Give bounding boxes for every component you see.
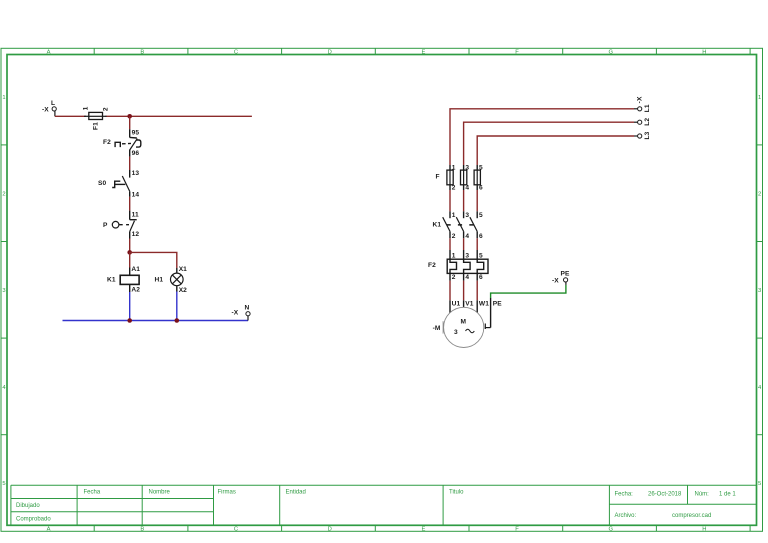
svg-text:Nombre: Nombre xyxy=(149,489,171,495)
svg-text:M: M xyxy=(461,319,467,326)
svg-text:Fecha: Fecha xyxy=(84,489,101,495)
svg-text:Firmas: Firmas xyxy=(218,489,236,495)
svg-text:L: L xyxy=(51,100,55,107)
wire branch to H1 xyxy=(130,252,177,268)
terminal -X L (control supply) xyxy=(42,100,56,116)
wire F to K1 pole1 xyxy=(449,190,451,211)
svg-text:L2: L2 xyxy=(644,118,651,126)
terminal -X L1 xyxy=(634,96,651,112)
wire phase L1 xyxy=(450,109,634,165)
svg-text:F1: F1 xyxy=(93,122,100,130)
svg-text:1: 1 xyxy=(452,164,456,171)
svg-text:S0: S0 xyxy=(98,180,106,187)
junction node coil branch xyxy=(127,250,132,255)
lamp H1 (X1-X2) xyxy=(155,266,188,294)
svg-text:W1: W1 xyxy=(479,300,489,307)
svg-text:PE: PE xyxy=(561,271,570,278)
svg-text:4: 4 xyxy=(465,274,469,281)
svg-text:5: 5 xyxy=(479,164,483,171)
contactor K1 main contacts xyxy=(433,211,484,240)
svg-text:4: 4 xyxy=(2,385,6,391)
svg-text:K1: K1 xyxy=(433,221,442,228)
svg-text:6: 6 xyxy=(479,185,483,192)
svg-text:1 de 1: 1 de 1 xyxy=(719,491,736,497)
wire S0 to P xyxy=(129,197,131,211)
svg-text:2: 2 xyxy=(452,274,456,281)
svg-text:-M: -M xyxy=(433,325,441,332)
wire P to node xyxy=(129,239,131,253)
wire F2 to S0 xyxy=(129,157,131,170)
svg-text:F: F xyxy=(515,527,519,533)
junction node H1/N xyxy=(175,318,180,323)
svg-text:Fecha:: Fecha: xyxy=(615,491,634,497)
svg-text:C: C xyxy=(234,50,238,56)
motor -M (3~) xyxy=(433,298,503,348)
wire F2 to motor U1 xyxy=(449,281,451,301)
svg-text:P: P xyxy=(103,222,108,229)
svg-text:G: G xyxy=(608,527,613,533)
svg-text:4: 4 xyxy=(758,385,762,391)
wire F2 to motor V1 xyxy=(463,281,465,301)
terminal -X PE xyxy=(552,271,570,285)
svg-text:L3: L3 xyxy=(644,131,651,139)
svg-text:A: A xyxy=(47,527,51,533)
wire phase L3 xyxy=(477,136,634,165)
svg-text:6: 6 xyxy=(479,233,483,240)
svg-text:14: 14 xyxy=(132,192,140,199)
svg-text:H: H xyxy=(702,527,706,533)
svg-text:96: 96 xyxy=(132,150,140,157)
svg-text:Dibujado: Dibujado xyxy=(16,503,40,509)
svg-text:-X: -X xyxy=(637,96,644,103)
svg-text:V1: V1 xyxy=(465,300,473,307)
svg-text:H1: H1 xyxy=(155,276,164,283)
svg-text:3: 3 xyxy=(465,212,469,219)
svg-text:A1: A1 xyxy=(131,266,140,273)
svg-text:3: 3 xyxy=(465,252,469,259)
wire L rail xyxy=(55,115,252,117)
svg-text:G: G xyxy=(608,50,613,56)
wire F to K1 pole2 xyxy=(463,190,465,211)
wire F to K1 pole3 xyxy=(476,190,478,211)
svg-text:F2: F2 xyxy=(103,139,111,146)
svg-text:F2: F2 xyxy=(428,262,436,269)
svg-text:F: F xyxy=(515,50,519,56)
svg-text:5: 5 xyxy=(758,481,761,487)
svg-text:3: 3 xyxy=(758,288,761,294)
wire node to K1 coil xyxy=(129,252,131,267)
svg-text:11: 11 xyxy=(132,211,139,218)
svg-text:C: C xyxy=(234,527,238,533)
svg-text:E: E xyxy=(421,50,425,56)
svg-text:-X: -X xyxy=(232,309,239,316)
svg-text:A2: A2 xyxy=(131,286,140,293)
svg-text:U1: U1 xyxy=(452,300,461,307)
wire K1 to F2 pole2 xyxy=(463,238,465,250)
svg-text:K1: K1 xyxy=(107,277,116,284)
svg-text:A: A xyxy=(47,50,51,56)
svg-text:Titulo: Titulo xyxy=(449,489,464,495)
contactor coil K1 (A1-A2) xyxy=(107,266,140,293)
wire F2 to motor W1 xyxy=(476,281,478,301)
junction node rail/F2 xyxy=(127,114,132,119)
pushbutton P NC (11-12) xyxy=(103,211,139,239)
svg-text:5: 5 xyxy=(479,212,483,219)
svg-text:95: 95 xyxy=(132,129,140,136)
svg-text:1: 1 xyxy=(758,95,761,101)
svg-text:2: 2 xyxy=(102,107,109,111)
svg-text:D: D xyxy=(328,50,332,56)
terminal -X L2 xyxy=(634,118,651,126)
svg-text:E: E xyxy=(421,527,425,533)
wire H1 to neutral xyxy=(176,292,178,321)
svg-text:PE: PE xyxy=(493,300,502,307)
svg-text:D: D xyxy=(328,527,332,533)
svg-text:H: H xyxy=(702,50,706,56)
svg-text:12: 12 xyxy=(132,231,140,238)
svg-text:2: 2 xyxy=(758,192,761,198)
switch S0 (13-14) xyxy=(98,170,139,199)
svg-text:X1: X1 xyxy=(179,266,187,273)
svg-text:26-Oct-2018: 26-Oct-2018 xyxy=(648,491,682,497)
junction node K1/N xyxy=(127,318,132,323)
svg-text:4: 4 xyxy=(465,185,469,192)
svg-text:Archivo:: Archivo: xyxy=(615,513,637,519)
wire phase L2 xyxy=(464,122,634,165)
wire K1 to F2 pole1 xyxy=(449,238,451,250)
svg-text:4: 4 xyxy=(465,233,469,240)
svg-text:3: 3 xyxy=(2,288,5,294)
wire K1 to F2 pole3 xyxy=(476,238,478,250)
svg-text:6: 6 xyxy=(479,274,483,281)
svg-text:2: 2 xyxy=(2,192,5,198)
svg-text:-X: -X xyxy=(552,278,559,285)
svg-text:3: 3 xyxy=(465,164,469,171)
overload relay F2 (3-pole thermal) xyxy=(428,250,488,281)
svg-text:B: B xyxy=(140,50,144,56)
svg-text:L1: L1 xyxy=(644,104,651,112)
svg-text:Comprobado: Comprobado xyxy=(16,516,51,522)
fuse F (3-pole) xyxy=(436,164,484,191)
wire rail to F2 xyxy=(129,116,131,129)
svg-text:5: 5 xyxy=(2,481,5,487)
svg-text:3: 3 xyxy=(454,329,458,336)
terminal -X L3 xyxy=(634,131,651,139)
terminal -X N xyxy=(232,305,251,321)
svg-text:1: 1 xyxy=(452,212,456,219)
svg-text:N: N xyxy=(245,305,250,312)
wire N rail xyxy=(63,320,249,322)
wire PE (green) xyxy=(491,285,566,298)
svg-text:13: 13 xyxy=(132,170,140,177)
svg-text:2: 2 xyxy=(452,185,456,192)
svg-text:2: 2 xyxy=(452,233,456,240)
svg-text:Núm:: Núm: xyxy=(695,491,710,497)
svg-text:F: F xyxy=(436,173,440,180)
svg-text:B: B xyxy=(140,527,144,533)
svg-text:compresor.cad: compresor.cad xyxy=(672,513,711,519)
svg-text:Entidad: Entidad xyxy=(286,489,306,495)
wire K1 to neutral xyxy=(129,292,131,321)
svg-text:5: 5 xyxy=(479,252,483,259)
svg-text:1: 1 xyxy=(2,95,5,101)
overload NC contact F2 (95-96) xyxy=(103,129,141,157)
fuse F1 xyxy=(83,106,110,130)
svg-text:X2: X2 xyxy=(179,287,187,294)
svg-text:1: 1 xyxy=(452,252,456,259)
svg-text:1: 1 xyxy=(83,106,90,110)
svg-text:-X: -X xyxy=(42,106,49,113)
